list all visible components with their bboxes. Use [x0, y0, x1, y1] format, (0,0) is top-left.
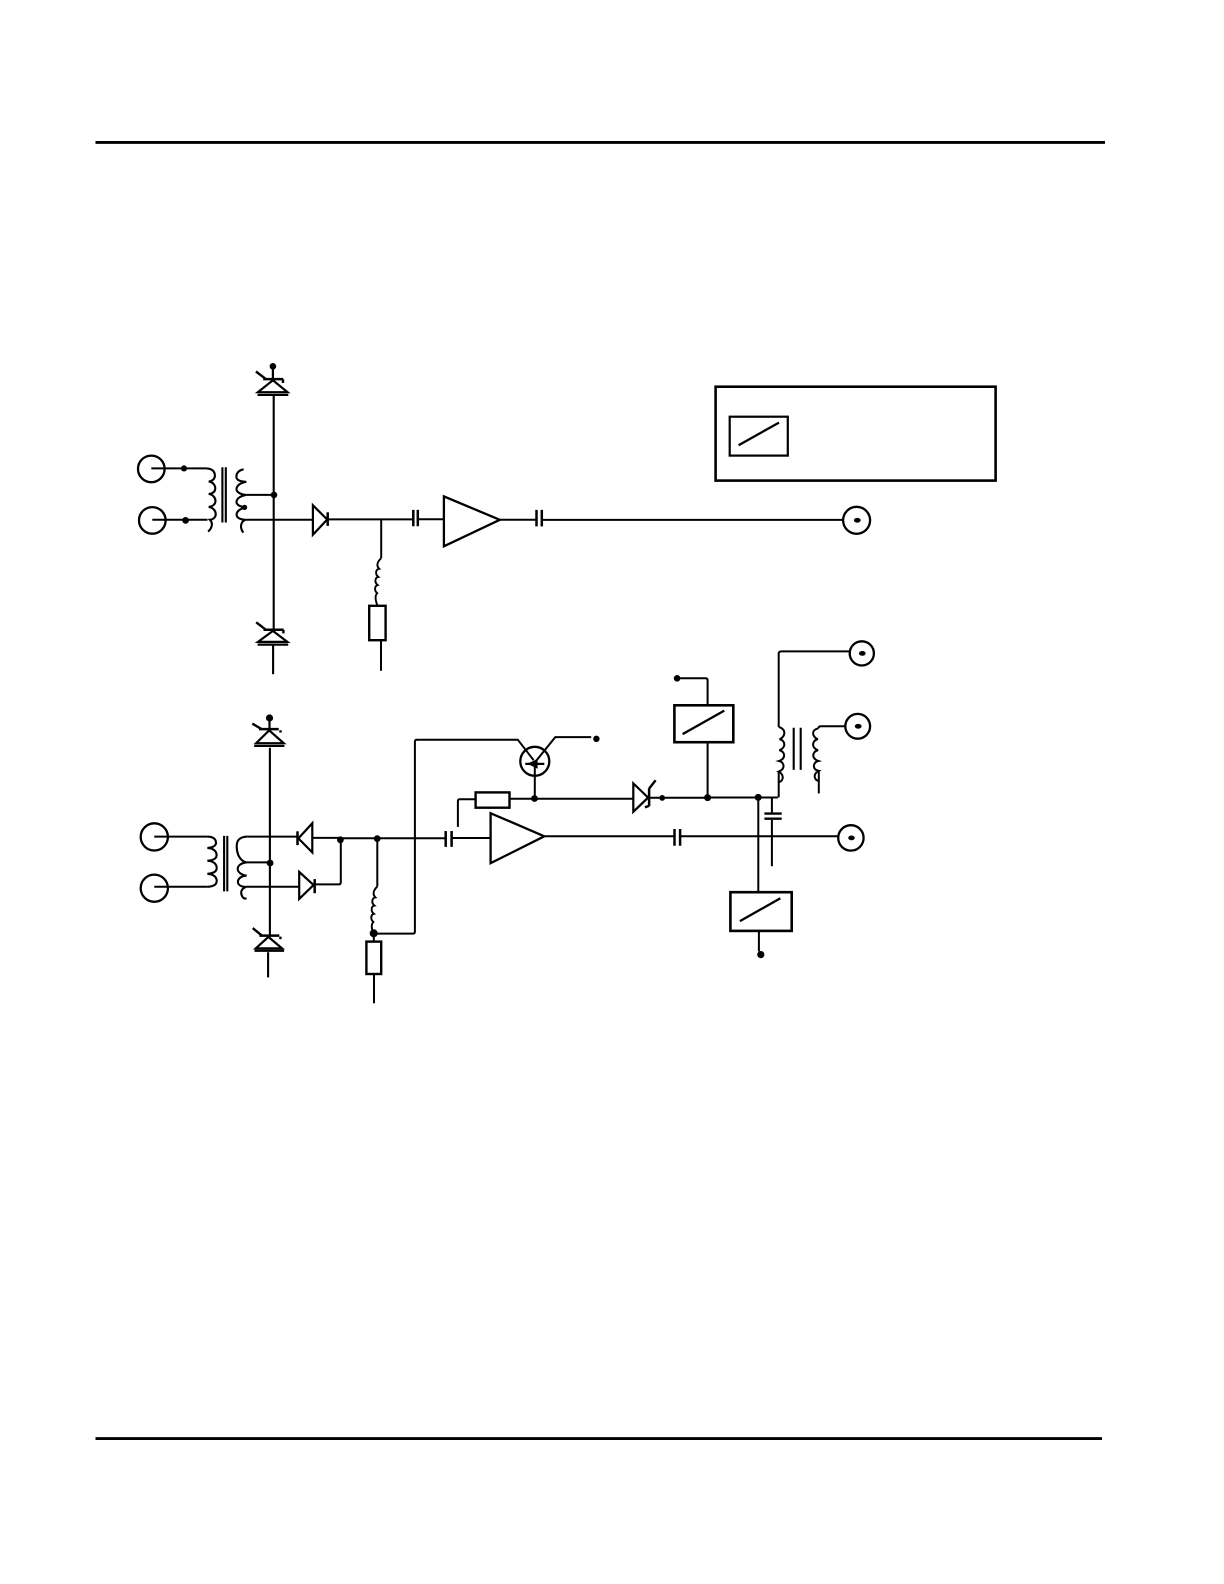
wire N6 up to converter U1 — [707, 742, 709, 797]
zener diode VR3 anode bar — [254, 745, 284, 747]
transformer T3 primary winding — [779, 727, 785, 782]
transistor Q1 collector lead — [535, 737, 591, 762]
zener diode VR5 cathode bar — [648, 788, 651, 806]
output terminal J3 center dot — [854, 518, 861, 523]
U2 stub terminal dot — [757, 951, 764, 958]
output terminal J7 — [845, 714, 870, 739]
junction dot on J1 wire — [181, 465, 187, 471]
feedback wire N3 to transistor base — [377, 740, 534, 934]
clamp rail wire (lower circuit) — [269, 748, 271, 936]
wire J4 to transformer T2 primary top — [154, 836, 207, 838]
wire R3 to zener VR5 — [510, 798, 634, 800]
zener diode VR1 anode bar — [258, 394, 289, 396]
zener diode VR3 diagonal stroke — [252, 724, 261, 730]
diode CR3 triangle — [299, 872, 313, 899]
zener diode VR3 anode triangle — [256, 730, 284, 743]
zener diode VR2 anode triangle — [258, 631, 287, 642]
wire transformer T1 to diode CR1 — [245, 519, 313, 521]
transformer T2 secondary winding — [237, 837, 248, 899]
junction dot tap to clamp rail (lower) — [267, 860, 274, 867]
transistor Q1 emitter arrow — [527, 759, 537, 769]
wire C4 to output terminal J8 — [680, 835, 838, 837]
output terminal J8 center dot — [848, 836, 855, 841]
U2 bottom stub — [758, 931, 760, 952]
zener diode VR5 top bend — [649, 780, 656, 788]
DC-DC converter U1 diagonal — [683, 711, 725, 735]
resistor R3 left lead — [458, 799, 476, 827]
zener diode VR2 diagonal stroke — [256, 622, 265, 629]
zener diode VR4 bottom stub — [267, 952, 269, 977]
output terminal J3 — [843, 507, 870, 534]
resistor R3 — [476, 792, 510, 807]
wire N6 to node N7 — [708, 797, 759, 799]
capacitor C5 plates — [764, 814, 781, 819]
capacitor C4 plates — [675, 829, 681, 846]
transformer T1 primary winding — [206, 468, 215, 531]
wire C2 to output terminal J3 — [542, 519, 843, 521]
capacitor C3 plates — [446, 831, 452, 847]
wire VR5 to node N6 — [649, 797, 707, 799]
junction dot N4 — [531, 795, 538, 802]
legend box — [716, 387, 996, 481]
diode CR1 cathode bar — [326, 512, 329, 526]
transformer T1 center-tap wire — [246, 494, 272, 496]
output terminal J8 — [838, 825, 863, 850]
clamp rail wire (upper circuit) — [273, 395, 275, 630]
zener diode VR5 bottom bend — [645, 806, 649, 807]
transformer T2 core — [224, 836, 227, 892]
top horizontal rule — [96, 141, 1106, 144]
zener diode VR1 bar bend — [282, 379, 284, 383]
wire N1 to capacitor C3 — [341, 837, 445, 839]
zener diode VR1 cathode stub — [272, 369, 274, 379]
junction dot tap to clamp rail — [271, 492, 278, 499]
zener diode VR3 terminal dot — [266, 714, 273, 721]
transistor Q1 base bar — [525, 763, 544, 765]
transformer T1 winding polarity dot — [242, 505, 247, 510]
diode CR2 cathode bar — [296, 831, 299, 845]
legend DC-DC converter symbol box — [730, 417, 788, 456]
wire J7 to transformer T3 secondary top — [819, 726, 846, 728]
zener diode VR4 anode bar — [255, 950, 285, 952]
zener diode VR5 triangle — [633, 783, 648, 811]
op-amp A1 — [444, 496, 500, 546]
transistor Q1 circle — [520, 747, 549, 776]
zener diode VR2 cathode bar — [264, 628, 284, 631]
transistor Q1 collector terminal dot — [593, 736, 599, 742]
wire C3 to amplifier A2 — [452, 837, 491, 839]
resistor R1 — [369, 606, 385, 640]
junction dot N7 — [755, 794, 762, 801]
zener diode VR4 anode triangle — [256, 937, 282, 948]
wire CR1 to capacitor C1 — [328, 518, 413, 520]
transformer T3 secondary bottom stub — [818, 771, 820, 794]
transformer T3 primary bottom lead — [778, 772, 780, 798]
output terminal J7 center dot — [855, 724, 862, 729]
resistor R1 bottom stub — [380, 640, 382, 671]
DC-DC converter U1 box — [674, 705, 733, 742]
wire A1 to capacitor C2 — [500, 519, 536, 521]
input terminal J1 — [138, 456, 165, 483]
transformer T2 primary winding — [207, 837, 216, 887]
zener diode VR1 anode triangle — [258, 380, 288, 392]
output terminal J6 — [850, 641, 874, 665]
diode CR2 triangle — [298, 823, 312, 852]
wire N7 to transformer T3 primary — [758, 797, 778, 799]
wire J2 to transformer primary bottom — [152, 519, 207, 521]
DC-DC converter U2 diagonal — [740, 898, 781, 921]
zener diode VR3 bar bend — [279, 730, 281, 732]
zener diode VR4 diagonal stroke — [253, 928, 262, 935]
branch wire down to L2 — [376, 839, 378, 887]
wire T2 secondary bottom to diode CR3 — [246, 886, 299, 888]
inductor L1 — [375, 558, 381, 606]
wire J6 to transformer T3 primary top — [779, 651, 850, 727]
zener diode VR4 cathode bar — [259, 934, 279, 937]
junction dot N3 — [370, 929, 378, 937]
wire J1 to transformer primary top — [151, 467, 206, 469]
input terminal J4 — [141, 823, 168, 850]
branch wire down to L1 — [380, 519, 382, 558]
op-amp A2 — [491, 813, 545, 863]
transistor Q1 emitter lead — [534, 764, 536, 798]
capacitor C5 top lead — [771, 798, 773, 813]
wire CR2 to node N1 — [312, 837, 339, 839]
junction dot N1 — [337, 836, 344, 843]
zener diode VR2 bottom stub — [272, 645, 274, 674]
dot N5 after VR5 — [659, 795, 665, 801]
junction dot on J2 wire — [182, 517, 189, 524]
zener diode VR2 bar bend — [282, 630, 284, 634]
resistor R2 top stub — [373, 936, 375, 942]
wire N7 down to converter U2 — [757, 797, 759, 892]
wire CR3 riser to node N1 — [315, 842, 341, 884]
zener diode VR3 cathode bar — [259, 728, 279, 731]
resistor R2 — [366, 942, 381, 974]
U1 top stub wire — [680, 678, 707, 705]
junction dot N6 — [704, 794, 711, 801]
wire A2 to capacitor C4 — [544, 835, 674, 837]
capacitor C1 plates — [413, 510, 418, 526]
zener diode VR1 terminal dot — [270, 363, 277, 370]
input terminal J2 — [139, 507, 166, 534]
capacitor C2 plates — [537, 510, 542, 527]
wire C1 to amplifier A1 — [418, 518, 444, 520]
zener diode VR1 diagonal stroke — [256, 372, 265, 379]
zener diode VR3 cathode stub — [268, 721, 270, 729]
bottom horizontal rule — [96, 1437, 1103, 1440]
transformer T3 core — [794, 728, 801, 770]
wire T2 secondary top to diode CR2 — [247, 836, 297, 838]
diode CR1 triangle — [313, 505, 327, 534]
zener diode VR4 bar bend — [279, 937, 281, 940]
transformer T2 center-tap wire — [247, 861, 269, 863]
transformer T3 secondary winding — [813, 728, 819, 780]
legend DC-DC converter symbol diagonal — [739, 423, 779, 446]
DC-DC converter U2 box — [730, 892, 791, 931]
capacitor C5 bottom lead — [771, 820, 773, 866]
zener diode VR1 cathode bar — [263, 378, 283, 381]
inductor L2 — [371, 887, 377, 934]
zener diode VR2 anode bar — [258, 643, 289, 645]
resistor R2 bottom stub — [373, 974, 375, 1003]
U1 stub terminal dot — [674, 675, 681, 682]
output terminal J6 center dot — [859, 651, 866, 656]
transformer T1 secondary winding — [236, 469, 246, 532]
junction dot N2 — [374, 835, 381, 842]
transformer T1 core — [222, 467, 225, 522]
wire J5 to transformer T2 primary bottom — [154, 886, 207, 888]
diode CR3 cathode bar — [313, 879, 316, 893]
input terminal J5 — [141, 875, 168, 902]
